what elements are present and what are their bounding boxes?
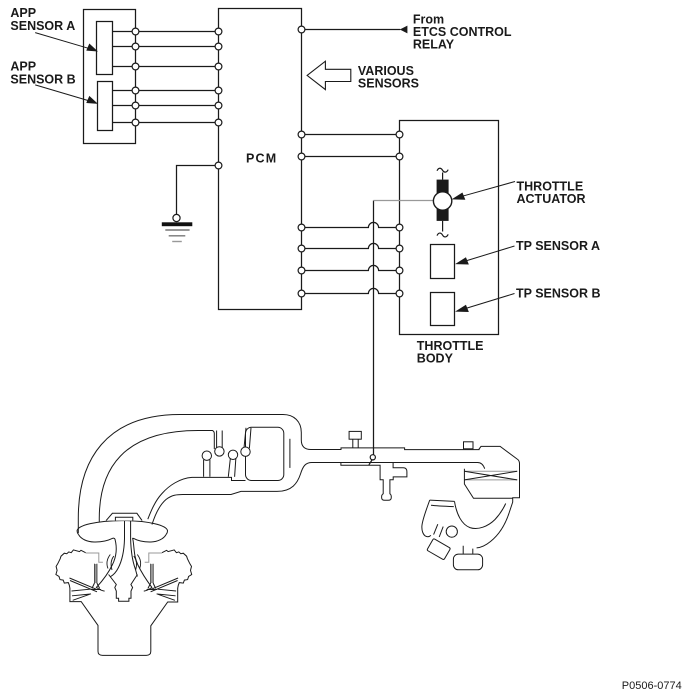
svg-text:RELAY: RELAY	[413, 38, 455, 52]
svg-text:PCM: PCM	[246, 152, 277, 166]
svg-text:TP SENSOR B: TP SENSOR B	[516, 287, 601, 301]
svg-text:P0506-0774: P0506-0774	[622, 680, 682, 692]
svg-text:SENSORS: SENSORS	[358, 77, 419, 91]
svg-text:TP SENSOR A: TP SENSOR A	[516, 239, 600, 253]
svg-text:APP: APP	[10, 59, 36, 73]
svg-text:BODY: BODY	[417, 352, 454, 366]
svg-text:APP: APP	[10, 6, 36, 20]
svg-text:SENSOR B: SENSOR B	[10, 73, 75, 87]
svg-text:ACTUATOR: ACTUATOR	[517, 192, 586, 206]
svg-text:SENSOR A: SENSOR A	[10, 19, 75, 33]
